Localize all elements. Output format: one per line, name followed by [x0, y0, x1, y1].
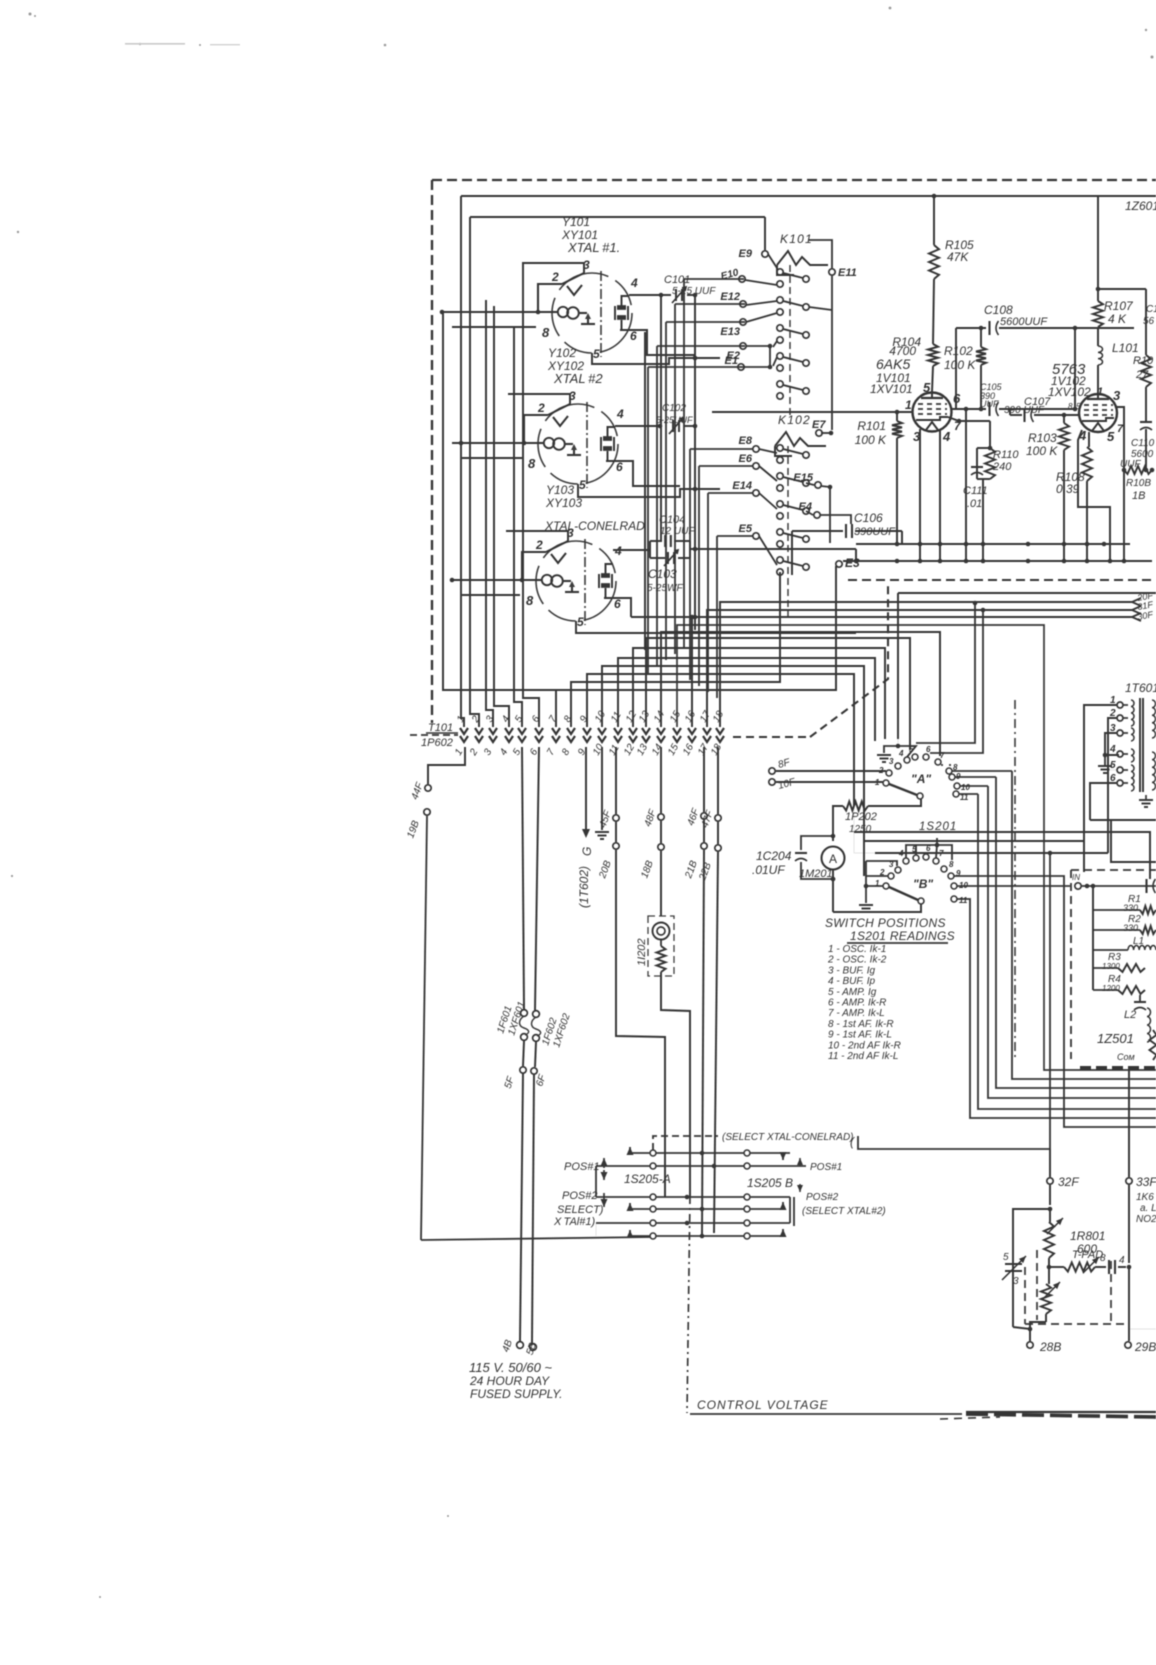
svg-text:E9: E9 — [739, 248, 753, 260]
svg-text:4: 4 — [898, 749, 904, 758]
svg-text:330: 330 — [1123, 903, 1138, 913]
svg-text:T-PAD: T-PAD — [1072, 1249, 1103, 1261]
svg-text:E14: E14 — [732, 480, 752, 492]
svg-text:1300: 1300 — [1102, 962, 1120, 971]
svg-text:2: 2 — [878, 766, 884, 775]
svg-text:SELECT): SELECT) — [557, 1204, 604, 1216]
svg-text:POS#2: POS#2 — [562, 1190, 597, 1202]
svg-text:1: 1 — [905, 398, 912, 412]
svg-text:POS#1: POS#1 — [810, 1162, 842, 1173]
svg-text:UUF: UUF — [980, 399, 999, 409]
svg-text:SWITCH POSITIONS: SWITCH POSITIONS — [825, 916, 946, 930]
svg-text:10: 10 — [961, 783, 970, 792]
svg-text:47K: 47K — [947, 250, 969, 264]
svg-text:CONTROL VOLTAGE: CONTROL VOLTAGE — [697, 1398, 829, 1412]
svg-text:a. L: a. L — [1140, 1203, 1156, 1214]
svg-text:100 K: 100 K — [1026, 444, 1058, 458]
svg-text:9 - 1st AF. Ik-L: 9 - 1st AF. Ik-L — [828, 1030, 892, 1041]
svg-text:6 - AMP. Ik-R: 6 - AMP. Ik-R — [828, 998, 886, 1009]
svg-text:E8: E8 — [739, 435, 753, 447]
svg-text:1 - OSC. Ik-1: 1 - OSC. Ik-1 — [828, 944, 886, 955]
svg-text:(SELECT XTAL-CONELRAD): (SELECT XTAL-CONELRAD) — [722, 1132, 854, 1143]
svg-text:K102: K102 — [778, 413, 811, 427]
svg-text:XTAL #2: XTAL #2 — [553, 371, 603, 386]
svg-text:R102: R102 — [944, 344, 973, 358]
svg-text:240: 240 — [992, 461, 1012, 473]
svg-text:4 - BUF. Ip: 4 - BUF. Ip — [828, 976, 875, 987]
svg-text:K101: K101 — [780, 232, 813, 246]
svg-text:G: G — [580, 847, 594, 856]
svg-text:R103: R103 — [1028, 431, 1057, 445]
svg-text:4: 4 — [1109, 744, 1116, 755]
svg-text:1S205 B: 1S205 B — [747, 1176, 793, 1190]
svg-text:C104: C104 — [659, 514, 685, 526]
svg-text:5: 5 — [1076, 402, 1081, 411]
svg-text:E7: E7 — [812, 419, 826, 431]
svg-text:E4: E4 — [799, 501, 812, 513]
svg-text:E13: E13 — [720, 326, 740, 338]
svg-text:1XV101: 1XV101 — [870, 382, 913, 396]
svg-text:11: 11 — [959, 896, 968, 905]
svg-text:1R801: 1R801 — [1070, 1229, 1105, 1243]
svg-text:1Z501: 1Z501 — [1097, 1031, 1134, 1046]
svg-text:E15: E15 — [793, 472, 813, 484]
svg-text:XY103: XY103 — [545, 496, 582, 510]
svg-text:5600UUF: 5600UUF — [1000, 316, 1048, 328]
svg-text:2 - OSC. Ik-2: 2 - OSC. Ik-2 — [827, 955, 887, 966]
svg-text:R107: R107 — [1104, 299, 1134, 313]
svg-text:6AK5: 6AK5 — [876, 356, 910, 372]
svg-text:1XV102: 1XV102 — [1048, 385, 1091, 399]
svg-text:115 V. 50/60 ~: 115 V. 50/60 ~ — [469, 1360, 552, 1375]
svg-text:4: 4 — [616, 407, 624, 421]
svg-text:3 - BUF. Ig: 3 - BUF. Ig — [828, 965, 875, 976]
svg-text:4: 4 — [614, 544, 622, 558]
svg-text:.01UF: .01UF — [752, 863, 785, 877]
svg-text:1: 1 — [875, 778, 880, 787]
svg-text:1S201 READINGS: 1S201 READINGS — [850, 929, 955, 943]
svg-text:1I202: 1I202 — [636, 938, 648, 966]
svg-text:8 - 1st AF. Ik-R: 8 - 1st AF. Ik-R — [828, 1019, 894, 1030]
svg-text:56: 56 — [1143, 316, 1155, 327]
svg-text:C103: C103 — [648, 567, 677, 581]
svg-text:FUSED SUPPLY.: FUSED SUPPLY. — [470, 1387, 563, 1401]
svg-text:11 - 2nd AF Ik-L: 11 - 2nd AF Ik-L — [828, 1051, 898, 1062]
svg-text:4: 4 — [630, 276, 638, 290]
svg-text:L2: L2 — [1124, 1009, 1136, 1021]
svg-text:6: 6 — [953, 391, 961, 406]
svg-text:5: 5 — [1003, 1252, 1009, 1263]
svg-text:A: A — [829, 852, 837, 866]
svg-text:4: 4 — [1119, 1255, 1125, 1266]
svg-text:3: 3 — [889, 757, 894, 766]
svg-text:7 - AMP. Ik-L: 7 - AMP. Ik-L — [828, 1008, 885, 1019]
svg-text:C101: C101 — [664, 274, 690, 286]
svg-text:5: 5 — [577, 615, 584, 629]
svg-text:XTAL #1.: XTAL #1. — [567, 240, 620, 255]
svg-text:E11: E11 — [838, 267, 857, 279]
svg-text:8: 8 — [1100, 1253, 1106, 1264]
svg-text:IN: IN — [1072, 873, 1080, 882]
svg-text:8: 8 — [949, 860, 954, 869]
svg-text:NO2: NO2 — [1136, 1214, 1156, 1225]
svg-text:100 K: 100 K — [855, 433, 887, 447]
svg-text:(SELECT ΧTAL#2): (SELECT ΧTAL#2) — [802, 1206, 886, 1217]
svg-text:6: 6 — [614, 597, 621, 611]
svg-text:8: 8 — [528, 456, 536, 471]
svg-text:3: 3 — [1113, 388, 1121, 403]
svg-text:POS#1: POS#1 — [564, 1161, 599, 1173]
svg-text:6: 6 — [630, 329, 637, 343]
svg-text:2: 2 — [551, 270, 559, 284]
svg-text:1B: 1B — [1132, 490, 1145, 502]
svg-text:L101: L101 — [1112, 341, 1139, 355]
svg-text:2: 2 — [537, 401, 545, 415]
svg-text:1M201: 1M201 — [799, 868, 833, 880]
svg-text:3: 3 — [1013, 1276, 1019, 1287]
svg-text:4: 4 — [942, 429, 951, 444]
svg-text:E5: E5 — [739, 523, 753, 535]
svg-text:29B: 29B — [1134, 1340, 1156, 1354]
svg-text:27: 27 — [1135, 369, 1149, 381]
svg-text:5 - AMP. Ig: 5 - AMP. Ig — [828, 987, 877, 998]
svg-text:2: 2 — [535, 538, 543, 552]
svg-text:6: 6 — [616, 460, 623, 474]
svg-text:Y103: Y103 — [546, 483, 574, 497]
svg-text:.01: .01 — [967, 498, 982, 510]
svg-text:E3: E3 — [845, 556, 860, 570]
svg-text:8: 8 — [1068, 402, 1073, 411]
svg-text:C106: C106 — [854, 511, 883, 525]
svg-text:R101: R101 — [857, 419, 886, 433]
svg-text:1K6: 1K6 — [1136, 1192, 1154, 1203]
svg-text:32F: 32F — [1058, 1175, 1079, 1189]
svg-text:"B": "B" — [913, 877, 933, 891]
svg-text:L1: L1 — [1133, 936, 1144, 947]
svg-text:R10B: R10B — [1126, 478, 1151, 489]
svg-text:E1: E1 — [725, 355, 738, 367]
svg-text:7: 7 — [1117, 423, 1124, 435]
svg-text:330: 330 — [1123, 923, 1138, 933]
svg-text:C110: C110 — [1131, 438, 1155, 449]
svg-text:Y101: Y101 — [562, 215, 590, 229]
svg-text:5: 5 — [579, 478, 586, 492]
svg-text:(1T602): (1T602) — [577, 866, 591, 908]
svg-text:5: 5 — [593, 347, 600, 361]
svg-text:C1: C1 — [1146, 304, 1156, 315]
svg-text:POS#2: POS#2 — [806, 1192, 839, 1203]
svg-text:24 HOUR DAY: 24 HOUR DAY — [469, 1374, 550, 1388]
svg-text:33F: 33F — [1136, 1175, 1156, 1189]
svg-text:1P602: 1P602 — [421, 737, 453, 749]
svg-text:Cом: Cом — [1117, 1052, 1135, 1062]
svg-text:28B: 28B — [1039, 1340, 1061, 1354]
svg-text:4 K: 4 K — [1108, 312, 1127, 326]
svg-text:1250: 1250 — [849, 824, 872, 835]
svg-text:100 K: 100 K — [944, 358, 976, 372]
svg-text:5: 5 — [923, 380, 931, 395]
svg-text:390UUF: 390UUF — [854, 526, 896, 538]
svg-text:Χ TAl#1): Χ TAl#1) — [553, 1216, 595, 1228]
svg-text:0.39: 0.39 — [1056, 482, 1080, 496]
svg-text:8: 8 — [526, 593, 534, 608]
svg-text:R10: R10 — [1133, 355, 1154, 367]
svg-text:4700: 4700 — [889, 344, 916, 358]
svg-text:1C204: 1C204 — [756, 849, 792, 863]
svg-text:10 - 2nd AF Ik-R: 10 - 2nd AF Ik-R — [828, 1040, 901, 1051]
svg-text:8: 8 — [542, 325, 550, 340]
svg-text:1T601: 1T601 — [1125, 681, 1156, 695]
svg-text:E12: E12 — [720, 291, 740, 303]
svg-text:1S205-A: 1S205-A — [624, 1172, 671, 1186]
svg-text:1200: 1200 — [1102, 984, 1120, 993]
svg-text:E6: E6 — [739, 453, 753, 465]
svg-text:R110: R110 — [993, 449, 1019, 461]
svg-text:Y102: Y102 — [548, 346, 576, 360]
svg-text:1Z601: 1Z601 — [1125, 199, 1156, 213]
svg-text:1P202: 1P202 — [845, 811, 877, 823]
svg-text:"A": "A" — [911, 772, 931, 786]
svg-text:T101: T101 — [428, 722, 453, 734]
svg-text:C108: C108 — [984, 303, 1013, 317]
svg-text:5: 5 — [1107, 429, 1115, 444]
